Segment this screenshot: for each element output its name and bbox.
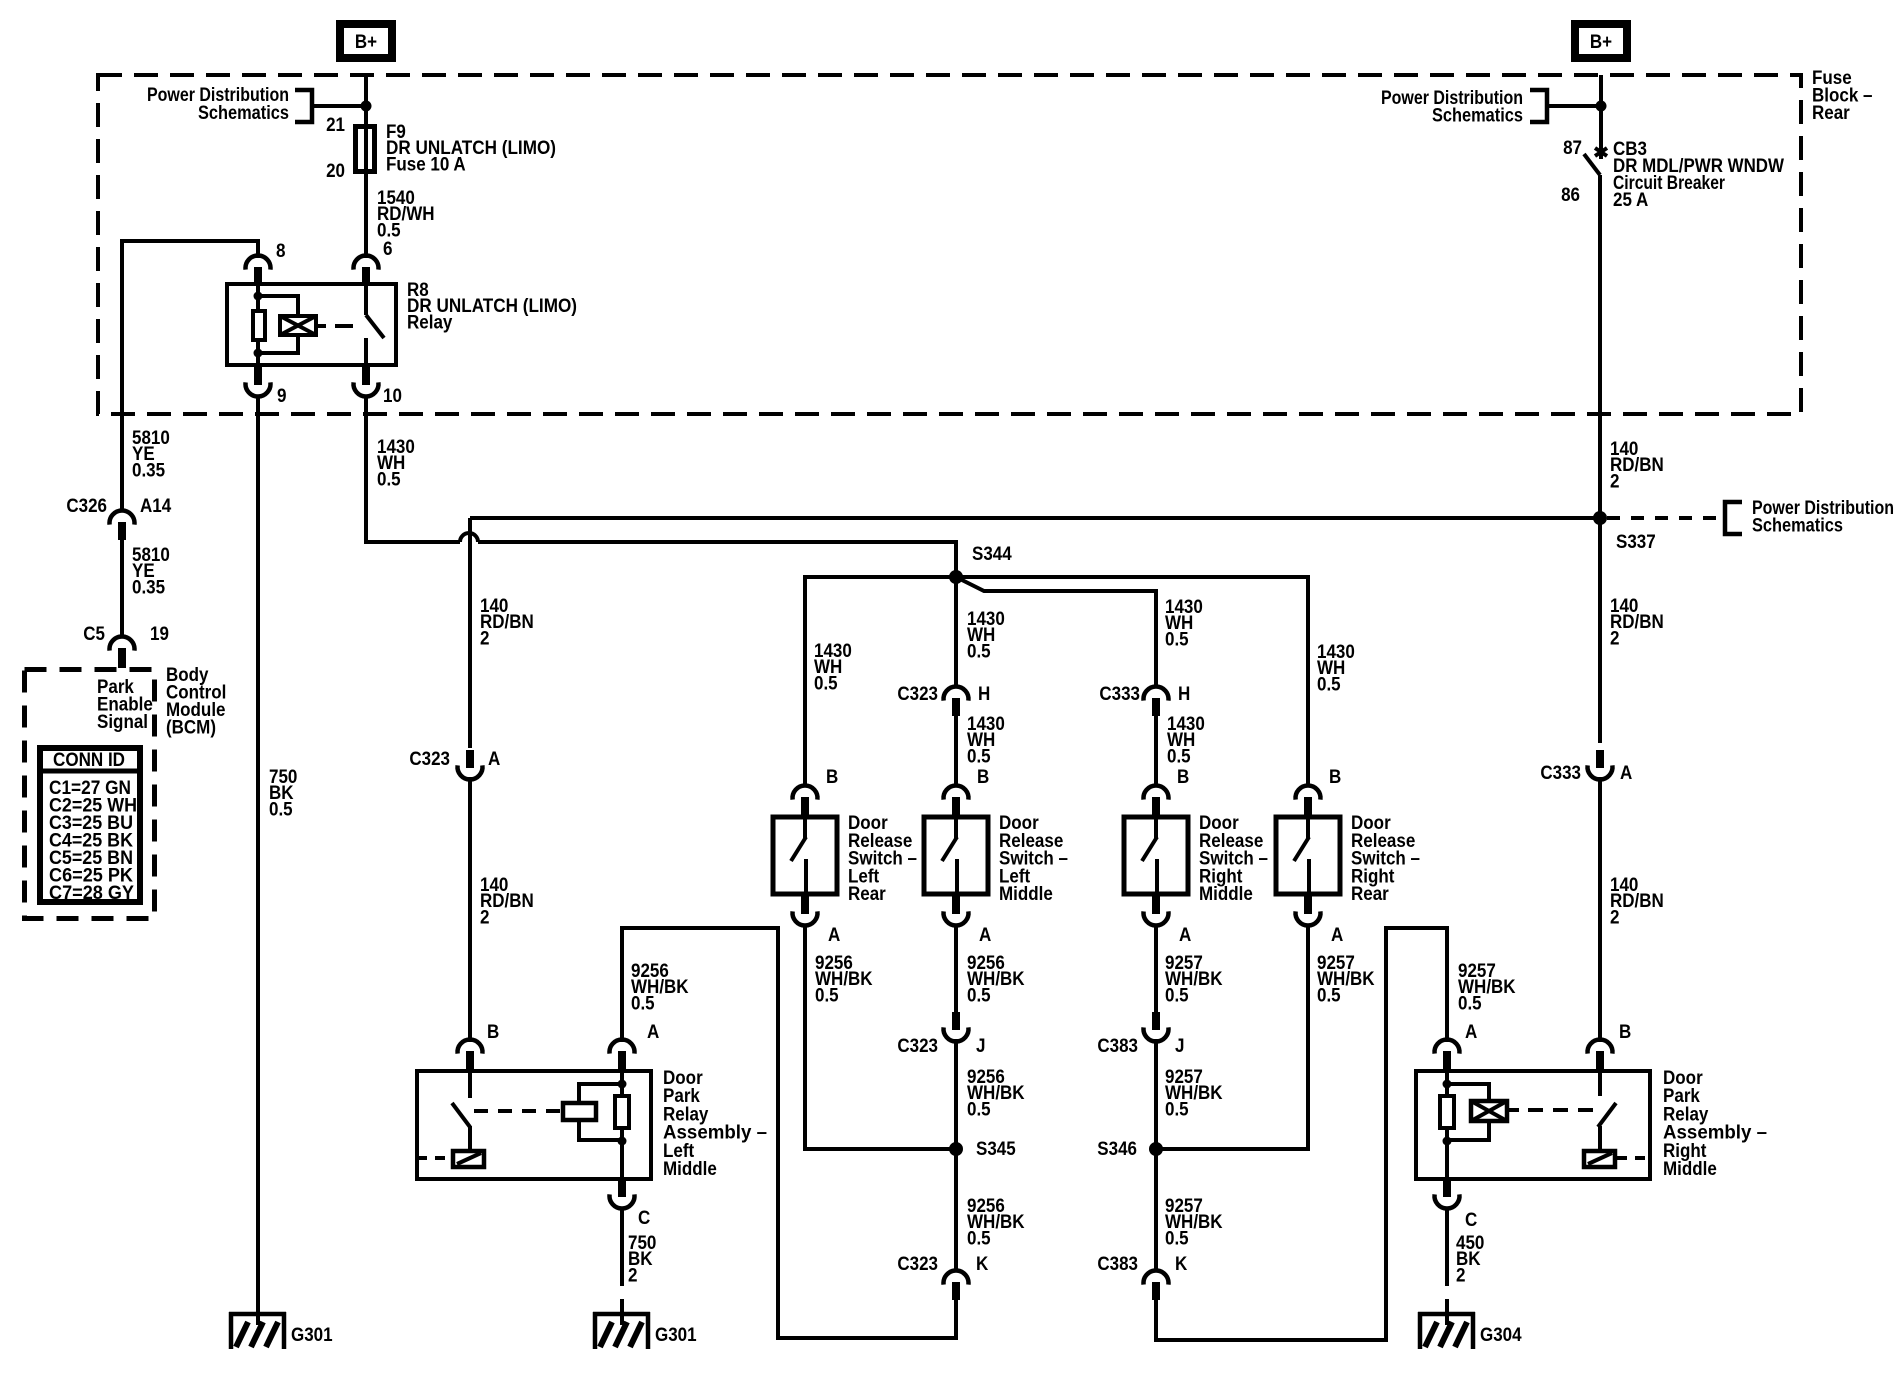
junction dot at right B+ feed [1596, 101, 1607, 112]
svg-text:25 A: 25 A [1613, 190, 1649, 211]
wire S344 to connector C323 H [954, 577, 958, 688]
wire 450 BK 2 to ground G304 [1445, 1208, 1449, 1286]
relay R8 coil resistor [253, 311, 265, 340]
power distribution schematics dashed reference at S337 [1607, 516, 1723, 520]
splice S346 [1149, 1142, 1163, 1156]
svg-text:0.5: 0.5 [1165, 629, 1189, 650]
relay R8 solenoid crossed box [280, 316, 316, 335]
wire S344 to left rear switch [805, 577, 956, 787]
switch contact inside box [803, 816, 807, 838]
svg-text:B: B [977, 767, 989, 788]
svg-text:0.5: 0.5 [1317, 674, 1341, 695]
door park relay left A pin connector [610, 1040, 635, 1054]
svg-text:0.5: 0.5 [1165, 1228, 1189, 1249]
svg-text:9: 9 [277, 386, 287, 407]
connector terminal B [1296, 786, 1321, 800]
svg-text:G301: G301 [291, 1325, 333, 1346]
svg-text:A: A [647, 1022, 660, 1043]
wire, switch B pin lead [803, 771, 807, 787]
svg-text:A14: A14 [140, 496, 172, 517]
relay R8 coil junction dots [254, 292, 263, 301]
svg-text:Schematics: Schematics [198, 103, 289, 124]
svg-text:H: H [1178, 684, 1190, 705]
wire 140 RD/BN S337 to connector C333 [1598, 518, 1602, 743]
svg-text:J: J [976, 1036, 986, 1057]
door park relay assembly left box [417, 1071, 651, 1179]
connector terminal A [944, 911, 969, 925]
connector terminal A [1144, 911, 1169, 925]
connector C333 terminal A [1588, 765, 1613, 779]
switch contact inside box [1306, 816, 1310, 838]
wire 9256 WH/BK C323 J to splice S345 [954, 1039, 958, 1149]
svg-text:B: B [1619, 1022, 1631, 1043]
wire, switch B pin lead [1306, 771, 1310, 787]
svg-text:K: K [1175, 1254, 1188, 1275]
wire crossover hop at 140 RD/BN branch [460, 533, 478, 542]
door park relay left coil branch [620, 1071, 624, 1179]
wire 750 BK relay pin 9 to ground G301 [256, 396, 260, 1325]
svg-text:A: A [1179, 925, 1192, 946]
svg-text:H: H [978, 684, 990, 705]
svg-text:G304: G304 [1480, 1325, 1522, 1346]
svg-text:0.35: 0.35 [132, 577, 165, 598]
connector terminal A [793, 911, 818, 925]
svg-text:Fuse 10 A: Fuse 10 A [386, 154, 466, 175]
svg-text:Middle: Middle [1663, 1159, 1717, 1180]
wire 1540 RD/WH fuse to relay pin 6 [364, 172, 368, 258]
relay R8 box [227, 284, 396, 365]
svg-text:0.5: 0.5 [377, 469, 401, 490]
wire 9256 WH/BK left middle switch to C323 J [954, 925, 958, 1012]
door park relay left contact dashed stub [417, 1156, 451, 1160]
relay R8 coil resistor branch [256, 284, 260, 365]
svg-text:B: B [1177, 767, 1189, 788]
svg-text:0.35: 0.35 [132, 460, 165, 481]
svg-text:B+: B+ [355, 32, 377, 53]
wire 750 BK 2 to ground G301 [620, 1208, 624, 1286]
svg-text:Middle: Middle [999, 884, 1053, 905]
wire 140 RD/BN bus from S337 to door park relay branch [470, 516, 1600, 520]
wire, switch B pin lead [1154, 771, 1158, 787]
connector C323 terminal J [944, 1027, 969, 1041]
door park relay left actuator dashed link [474, 1109, 560, 1113]
connector C323 terminal A [458, 765, 483, 779]
wire 9257 WH/BK C383 K to door park relay right A pin [1156, 928, 1447, 1340]
svg-text:0.5: 0.5 [815, 985, 839, 1006]
relay R8 pin 9 connector [246, 382, 271, 396]
svg-text:2: 2 [1610, 907, 1620, 928]
svg-text:B: B [1329, 767, 1341, 788]
fuse block dashed border [98, 75, 1801, 414]
door park relay right actuator dashed link [1509, 1108, 1519, 1112]
relay R8 pin 8 connector [246, 256, 271, 270]
door release switch box [1124, 817, 1188, 894]
wire 1430 WH C333 H to right middle switch [1154, 715, 1158, 787]
svg-text:0.5: 0.5 [967, 1228, 991, 1249]
svg-text:0.5: 0.5 [814, 673, 838, 694]
svg-text:G301: G301 [655, 1325, 697, 1346]
svg-text:0.5: 0.5 [269, 799, 293, 820]
svg-text:C323: C323 [409, 749, 450, 770]
svg-text:0.5: 0.5 [1165, 1099, 1189, 1120]
svg-text:0.5: 0.5 [1317, 985, 1341, 1006]
svg-text:A: A [1620, 763, 1633, 784]
svg-text:A: A [1331, 925, 1344, 946]
connector C326 terminal A14 [109, 511, 134, 525]
wire 9257 WH/BK right middle switch to C383 J [1154, 925, 1158, 1012]
wire S344 to right middle switch branch [956, 577, 1156, 688]
svg-text:A: A [979, 925, 992, 946]
power symbol B+ left [340, 24, 392, 58]
svg-text:21: 21 [326, 115, 345, 136]
ground G301 center [593, 1312, 650, 1317]
svg-text:Rear: Rear [1812, 103, 1850, 124]
svg-text:CONN ID: CONN ID [53, 750, 125, 771]
power symbol B+ right [1575, 24, 1627, 58]
wire 5810 YE to connector C5 [120, 540, 124, 638]
svg-text:(BCM): (BCM) [166, 718, 216, 739]
svg-text:A: A [828, 925, 841, 946]
door park relay left B pin connector [458, 1040, 483, 1054]
circuit breaker CB3 symbol [1599, 145, 1603, 159]
door park relay right contact box [1584, 1151, 1615, 1167]
connector terminal B [1144, 786, 1169, 800]
connector terminal A [1296, 911, 1321, 925]
svg-text:K: K [976, 1254, 989, 1275]
svg-text:Rear: Rear [848, 884, 886, 905]
wire 140 RD/BN down to connector C323 [468, 518, 472, 748]
svg-text:2: 2 [1456, 1265, 1466, 1286]
door release switch box [1276, 817, 1340, 894]
svg-text:S345: S345 [976, 1139, 1016, 1160]
svg-text:C333: C333 [1099, 684, 1140, 705]
wire B+ to circuit breaker CB3 [1599, 75, 1603, 148]
wire into BCM [118, 661, 126, 668]
svg-text:B: B [826, 767, 838, 788]
wire 9256 WH/BK C323 K to door park relay left A pin [622, 928, 956, 1338]
door release switch box [924, 817, 988, 894]
svg-text:0.5: 0.5 [1167, 746, 1191, 767]
svg-text:0.5: 0.5 [967, 746, 991, 767]
svg-text:C326: C326 [66, 496, 107, 517]
svg-text:0.5: 0.5 [1165, 985, 1189, 1006]
body control module dashed box [25, 670, 155, 919]
door park relay right switch [1598, 1071, 1602, 1096]
fuse F9 symbol [356, 127, 375, 172]
connector C323 terminal K [944, 1271, 969, 1285]
splice S345 [949, 1142, 963, 1156]
svg-text:0.5: 0.5 [631, 993, 655, 1014]
svg-text:0.5: 0.5 [967, 641, 991, 662]
door park relay left coil resistor [615, 1096, 629, 1128]
svg-text:2: 2 [480, 907, 490, 928]
connector C383 terminal K [1144, 1271, 1169, 1285]
svg-text:A: A [488, 749, 501, 770]
door park relay right solenoid crossed box [1471, 1101, 1507, 1121]
svg-text:2: 2 [628, 1265, 638, 1286]
svg-text:Relay: Relay [407, 312, 453, 333]
relay R8 switch [364, 284, 368, 315]
door park relay left C pin connector [610, 1194, 635, 1208]
connector terminal B [793, 786, 818, 800]
connector C333 terminal H [1144, 687, 1169, 701]
svg-text:C383: C383 [1097, 1036, 1138, 1057]
door park relay right coil resistor [1440, 1096, 1454, 1128]
door park relay right contact dashed stub [1617, 1156, 1650, 1160]
svg-text:86: 86 [1561, 185, 1580, 206]
door park relay assembly right box [1416, 1071, 1650, 1179]
svg-text:C: C [1465, 1210, 1478, 1231]
svg-text:Middle: Middle [663, 1159, 717, 1180]
svg-text:Schematics: Schematics [1432, 106, 1523, 127]
connector C5 terminal 19 [109, 637, 134, 651]
svg-text:S344: S344 [972, 544, 1012, 565]
relay R8 pin 6 connector [354, 256, 379, 270]
door park relay right C pin connector [1435, 1194, 1460, 1208]
connector terminal B [944, 786, 969, 800]
svg-text:8: 8 [276, 241, 286, 262]
svg-text:20: 20 [326, 161, 345, 182]
svg-text:S337: S337 [1616, 532, 1656, 553]
svg-text:2: 2 [1610, 628, 1620, 649]
ground G304 [1418, 1312, 1475, 1317]
wire 9257 WH/BK C383 J to splice S346 [1154, 1039, 1158, 1149]
wire B+ to fuse F9 [364, 75, 368, 126]
wire pin 8 feed [122, 241, 258, 258]
wire 1430 WH relay pin 10 to splice S344 [366, 396, 460, 542]
svg-text:C5: C5 [83, 624, 105, 645]
connector C383 terminal J [1144, 1027, 1169, 1041]
wire 9256 WH/BK S345 to C323 K [954, 1149, 958, 1272]
switch contact inside box [954, 816, 958, 838]
svg-text:10: 10 [383, 386, 402, 407]
door park relay right A pin connector [1435, 1040, 1460, 1054]
svg-text:B+: B+ [1590, 32, 1612, 53]
svg-text:19: 19 [150, 624, 169, 645]
svg-text:0.5: 0.5 [967, 1099, 991, 1120]
CONN ID table [40, 748, 140, 902]
power distribution schematics reference bracket left [295, 90, 312, 122]
junction dot at B+ feed [361, 101, 372, 112]
svg-text:S346: S346 [1097, 1139, 1137, 1160]
wire S344 to right rear switch [956, 577, 1308, 787]
svg-text:2: 2 [1610, 471, 1620, 492]
svg-text:0.5: 0.5 [1458, 993, 1482, 1014]
door park relay right junction dots [1443, 1080, 1452, 1089]
wire 9256 WH/BK left rear switch to splice S345 [805, 925, 956, 1149]
svg-text:Signal: Signal [97, 712, 148, 733]
svg-text:2: 2 [480, 628, 490, 649]
door park relay right coil branch [1445, 1071, 1449, 1179]
relay R8 actuator dashed link [318, 324, 326, 328]
relay R8 pin 10 connector [354, 382, 379, 396]
svg-text:C333: C333 [1540, 763, 1581, 784]
wire 140 RD/BN to door park relay right B pin [1598, 777, 1602, 1042]
door park relay left junction dots [618, 1080, 627, 1089]
splice S337 [1598, 420, 1602, 518]
svg-text:Schematics: Schematics [1752, 516, 1843, 537]
wire 5810 YE to connector C326 [120, 239, 124, 512]
door park relay right B pin connector [1588, 1040, 1613, 1054]
svg-text:C323: C323 [897, 1036, 938, 1057]
svg-text:C323: C323 [897, 1254, 938, 1275]
ground G301 left [229, 1312, 286, 1317]
svg-text:C323: C323 [897, 684, 938, 705]
svg-text:B: B [487, 1022, 499, 1043]
svg-text:87: 87 [1563, 138, 1582, 159]
svg-text:C7=28 GY: C7=28 GY [49, 883, 134, 904]
svg-text:A: A [1465, 1022, 1478, 1043]
svg-text:C: C [638, 1208, 651, 1229]
power distribution schematics reference bracket right [1530, 90, 1547, 122]
wire 9257 WH/BK S346 to C383 K [1154, 1149, 1158, 1272]
wire 1430 WH C323 H to left middle switch [954, 715, 958, 787]
svg-text:Middle: Middle [1199, 884, 1253, 905]
wire 140 RD/BN to door park relay left B pin [468, 777, 472, 787]
door park relay left switch [468, 1071, 472, 1098]
door release switch box [773, 817, 837, 894]
svg-text:Rear: Rear [1351, 884, 1389, 905]
splice S344 [949, 570, 963, 584]
connector C323 terminal H [944, 687, 969, 701]
wire, switch B pin lead [954, 771, 958, 787]
svg-text:0.5: 0.5 [967, 985, 991, 1006]
svg-text:J: J [1175, 1036, 1185, 1057]
switch contact inside box [1154, 816, 1158, 838]
svg-text:6: 6 [383, 239, 393, 260]
wire 9257 WH/BK right rear switch to splice S346 [1156, 925, 1308, 1149]
door park relay left contact box [453, 1151, 484, 1167]
svg-text:C383: C383 [1097, 1254, 1138, 1275]
